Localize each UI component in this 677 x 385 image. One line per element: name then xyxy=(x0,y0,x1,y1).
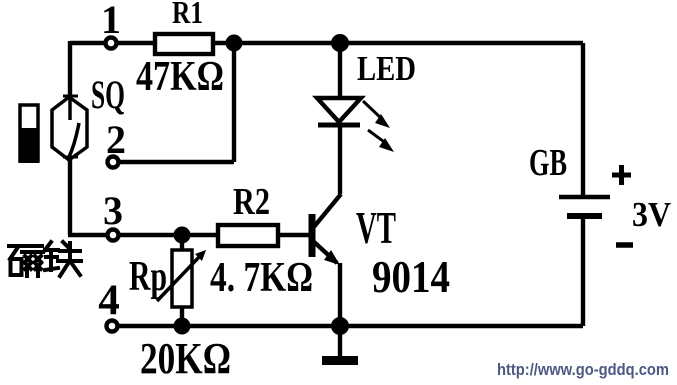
node 3 terminal circle xyxy=(108,230,119,241)
ground lead xyxy=(338,326,342,357)
LED light arrow 1 xyxy=(363,101,383,120)
LED cathode bar xyxy=(318,123,360,128)
LED light arrow 2 xyxy=(368,130,387,144)
wire left vertical lower (reed switch to node 3) xyxy=(68,156,72,235)
wire Rp top lead xyxy=(180,235,184,252)
junction node B (LED branch top) xyxy=(331,34,349,52)
potentiometer Rp body xyxy=(172,250,192,307)
reed switch SQ top crossbar xyxy=(63,95,78,98)
reed switch SQ moving contact xyxy=(69,123,79,157)
wire Rp bottom lead xyxy=(180,305,184,326)
wire left vertical upper (to reed switch) xyxy=(68,41,72,120)
node 2 terminal circle xyxy=(108,157,119,168)
svg-text:1: 1 xyxy=(101,0,121,42)
svg-text:4: 4 xyxy=(98,277,120,324)
reed switch SQ envelope xyxy=(52,97,87,160)
potentiometer Rp arrowhead xyxy=(195,250,206,261)
wire top rail xyxy=(70,41,583,45)
transistor VT base bar xyxy=(309,214,316,257)
svg-text:3: 3 xyxy=(103,188,123,233)
reed switch SQ bottom crossbar xyxy=(63,156,78,159)
wire bottom rail xyxy=(113,324,583,328)
wire node2 vertical to top rail xyxy=(232,43,236,162)
ground bar xyxy=(322,356,358,365)
wire right vertical upper (to battery +) xyxy=(581,43,585,197)
battery minus sign xyxy=(616,242,633,248)
reed switch SQ top lead inside xyxy=(68,97,72,120)
node 4 terminal circle xyxy=(107,321,118,332)
svg-text:http://www.go-gddq.com: http://www.go-gddq.com xyxy=(497,360,669,379)
wire node3 horizontal to transistor base xyxy=(68,233,309,237)
svg-text:SQ: SQ xyxy=(91,72,125,117)
resistor R2 xyxy=(218,225,278,246)
transistor VT emitter arrowhead xyxy=(324,250,340,265)
svg-text:9014: 9014 xyxy=(372,252,450,302)
svg-text:3V: 3V xyxy=(632,195,671,234)
potentiometer Rp arrow xyxy=(157,255,201,301)
svg-text:Rp: Rp xyxy=(129,254,167,300)
svg-text:4. 7KΩ: 4. 7KΩ xyxy=(210,255,313,301)
wire LED to collector xyxy=(338,125,342,194)
wire right vertical lower (battery - to bottom rail) xyxy=(581,216,585,326)
svg-text:GB: GB xyxy=(529,142,567,184)
resistor R1 xyxy=(155,34,213,54)
wire emitter vertical to bottom rail xyxy=(338,263,342,326)
magnet label char1 (magnet CJK glyph 1) xyxy=(9,246,43,276)
svg-text:R1: R1 xyxy=(172,0,203,30)
LED symbol triangle xyxy=(317,98,361,122)
svg-text:2: 2 xyxy=(106,117,126,162)
transistor VT collector lead xyxy=(313,194,341,228)
svg-text:20KΩ: 20KΩ xyxy=(140,334,231,383)
magnet bar black pole xyxy=(19,128,39,163)
svg-text:LED: LED xyxy=(357,49,416,88)
magnet bar body xyxy=(20,105,38,161)
battery GB negative plate xyxy=(567,213,602,219)
wire LED branch upper xyxy=(338,43,342,99)
svg-text:47KΩ: 47KΩ xyxy=(136,54,224,100)
junction node C (base rail / Rp top) xyxy=(174,227,191,244)
node 1 terminal circle xyxy=(106,38,117,49)
transistor VT emitter lead xyxy=(313,241,337,263)
junction node D (Rp bottom / bottom rail) xyxy=(174,318,191,335)
svg-text:R2: R2 xyxy=(233,181,270,223)
junction node A (R1 right / node2) xyxy=(226,35,243,52)
magnet label char2 (magnet CJK glyph 2) xyxy=(45,242,81,276)
svg-text:VT: VT xyxy=(356,203,396,253)
battery GB positive plate xyxy=(559,195,610,199)
battery plus sign xyxy=(612,165,631,185)
wire node2 horizontal xyxy=(113,160,234,164)
junction node E (emitter / bottom rail / ground) xyxy=(331,317,349,335)
